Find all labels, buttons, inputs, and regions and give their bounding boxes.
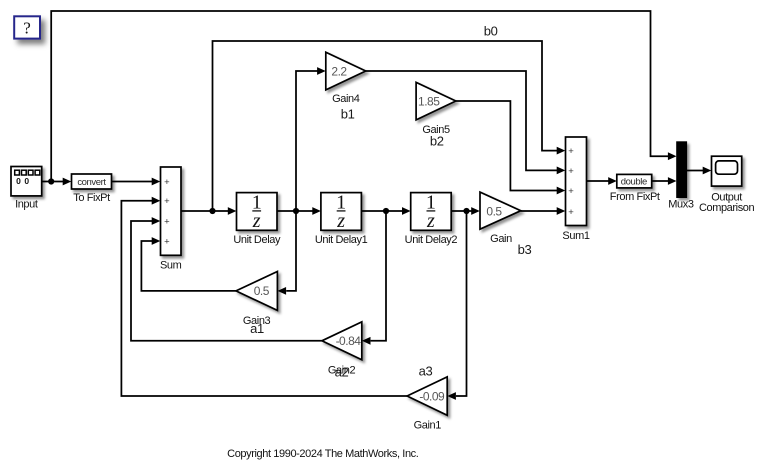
svg-text:+: + [164,177,170,188]
block: Gain3 (gain 0.5, a1, left-pointing) [236,272,277,311]
svg-text:?: ? [23,19,31,38]
block: help "?" [14,16,40,38]
svg-text:z: z [336,210,345,232]
block: Gain5 (gain 1.85) [416,82,456,120]
svg-text:+: + [568,186,574,197]
svg-text:+: + [568,146,574,157]
svg-text:Sum1: Sum1 [562,230,589,242]
wire: double output to Mux3 input 2 [651,177,677,185]
block: Gain1 (gain -0.09, a3, left-pointing) [407,377,447,415]
svg-text:-0.09: -0.09 [419,389,445,403]
svg-text:0 0: 0 0 [16,176,30,186]
block: Unit Delay [237,192,278,233]
svg-text:Copyright 1990-2024 The MathWo: Copyright 1990-2024 The MathWorks, Inc. [227,448,419,460]
svg-text:1.85: 1.85 [418,94,440,108]
block: convert (To FixPt) [72,174,112,189]
svg-text:z: z [426,210,435,232]
wire: node down to Gain1 input [447,211,466,400]
wire: Gain output to Sum1 input 4 [521,207,566,215]
wire: Gain1 output to Sum input 2 [121,197,407,396]
wire: Sum1 output to double [587,177,617,185]
svg-text:Mux3: Mux3 [668,199,694,211]
node: junction after Unit Delay [293,208,299,214]
svg-text:double: double [621,177,647,188]
svg-text:Sum: Sum [160,260,182,272]
svg-text:b2: b2 [430,134,444,149]
svg-text:Gain4: Gain4 [332,93,360,105]
wire: node down to Gain2 input [362,211,386,345]
block: Output Comparison scope [712,156,742,186]
svg-text:+: + [568,207,574,218]
wire: Gain5 output to Sum1 input 3 [456,101,566,194]
block: Unit Delay2 [411,192,452,233]
svg-text:+: + [568,166,574,177]
block: Input source [11,167,42,196]
svg-text:Gain: Gain [490,233,512,245]
wire: Gain3 output to Sum input 4 [141,237,236,291]
svg-text:+: + [164,216,170,227]
svg-text:Input: Input [15,199,38,211]
svg-text:To FixPt: To FixPt [73,192,110,204]
svg-text:b0: b0 [484,24,498,39]
node: junction after Sum output [209,208,215,214]
svg-text:Gain1: Gain1 [414,420,442,432]
wire: Unit Delay1 output to Unit Delay2 [361,207,410,215]
svg-text:Unit Delay: Unit Delay [233,234,281,246]
block: Unit Delay1 [321,192,362,233]
node: junction after Unit Delay2 [463,208,469,214]
wire: Input output to convert with junction [42,178,72,186]
wire: Gain2 output to Sum input 3 [131,217,322,341]
block: double (From FixPt) [617,174,652,188]
svg-text:b3: b3 [518,242,532,257]
svg-text:+: + [164,196,170,207]
block: Sum1 [566,137,587,226]
svg-text:Unit Delay1: Unit Delay1 [315,234,368,246]
svg-text:From FixPt: From FixPt [610,191,660,203]
wire: Input junction up and over to Mux3 input 1 [51,11,668,182]
svg-text:0.5: 0.5 [486,205,502,219]
node: junction after Unit Delay1 [383,208,389,214]
svg-text:a1: a1 [250,321,264,336]
node: junction above Input wire [48,178,54,184]
block: Gain4 (gain 2.2) [326,52,366,90]
svg-text:a2: a2 [335,365,349,380]
wire: Mux3 output to Output Comparison scope [687,167,712,175]
svg-text:0.5: 0.5 [254,284,270,298]
svg-text:Comparison: Comparison [699,202,755,214]
svg-text:b1: b1 [341,107,355,122]
svg-text:a3: a3 [419,364,433,379]
svg-text:convert: convert [77,177,106,188]
block: Gain2 (gain -0.84, a2, left-pointing) [322,322,362,360]
label: Output Comparison [699,192,755,215]
svg-text:2.2: 2.2 [331,64,347,78]
svg-text:-0.84: -0.84 [336,334,362,348]
wire: node down to Gain3 input [278,211,297,295]
wire: convert to Sum input 1 [112,178,161,186]
block: Gain (gain 0.5, b3) [480,192,521,229]
svg-text:z: z [252,210,261,232]
svg-text:Unit Delay2: Unit Delay2 [405,234,458,246]
wire: Sum output to Unit Delay [181,207,236,215]
block: Sum [161,167,182,255]
wire: Unit Delay2 output to Gain [451,207,480,215]
wire: node up to Gain4 input [296,67,326,211]
wire: Unit Delay output to Unit Delay1 [277,207,321,215]
svg-text:+: + [164,236,170,247]
wire: b0 path from Sum output node to Sum1 input 1 [213,41,566,211]
wire: Gain4 output to Sum1 input 2 [366,71,566,174]
block: Mux3 [677,142,687,198]
